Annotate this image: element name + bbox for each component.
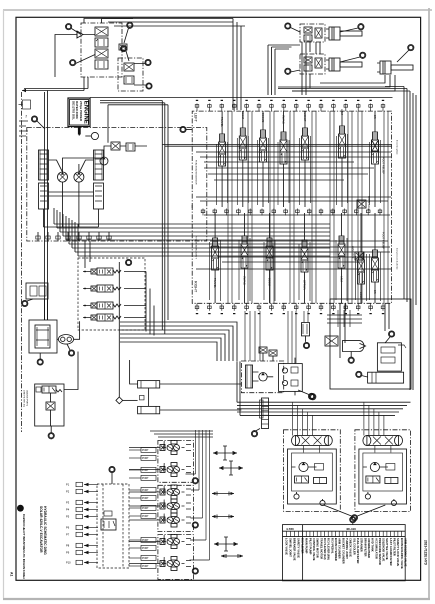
wire bbox=[247, 111, 249, 303]
wire bbox=[126, 51, 129, 61]
node 42 bbox=[145, 59, 151, 65]
wire bbox=[129, 505, 160, 507]
svg-text:270ps POWER: 270ps POWER bbox=[79, 101, 83, 122]
control valve spool TRAVEL upper bbox=[219, 134, 226, 170]
control valve spool BOOM lower bbox=[266, 238, 273, 274]
legend column bbox=[349, 531, 351, 536]
svg-text:2023-7122E HYD: 2023-7122E HYD bbox=[424, 540, 428, 566]
wire bbox=[283, 111, 285, 207]
svg-text:LOCK VALVE: LOCK VALVE bbox=[285, 538, 289, 555]
bucket cylinder C3 bbox=[377, 61, 413, 74]
pilot relief valve box bbox=[35, 384, 64, 426]
wire bbox=[340, 57, 360, 62]
boom cylinder C1 bbox=[326, 27, 362, 40]
svg-text:4D-410: 4D-410 bbox=[346, 527, 356, 531]
wire bbox=[221, 111, 223, 207]
wire bbox=[120, 330, 229, 361]
wire bbox=[242, 111, 244, 207]
bank risers bbox=[196, 430, 210, 560]
small filter F1 bbox=[119, 44, 127, 50]
port stub bbox=[332, 303, 334, 310]
svg-text:P5: P5 bbox=[66, 515, 70, 519]
wire bbox=[315, 111, 317, 303]
port stub bbox=[221, 303, 223, 310]
svg-text:SWING: SWING bbox=[163, 486, 165, 494]
pilot solenoid unit bbox=[160, 485, 185, 499]
svg-text:BREAKER VALVE: BREAKER VALVE bbox=[293, 538, 297, 561]
wire from cluster to top bus bbox=[102, 19, 246, 27]
node 13 bbox=[358, 24, 364, 30]
travel motor rotor bbox=[299, 462, 308, 471]
svg-text:LEFT: LEFT bbox=[194, 113, 198, 123]
pilot solenoid unit bbox=[160, 463, 185, 477]
node 12 bbox=[285, 23, 291, 29]
node 37 bbox=[109, 466, 115, 472]
legend column bbox=[309, 531, 311, 536]
relief sub valve bbox=[46, 402, 55, 410]
wire bbox=[350, 352, 352, 358]
port stub bbox=[246, 104, 248, 112]
wire bbox=[269, 111, 271, 303]
svg-text:RCV LEVER: RCV LEVER bbox=[301, 538, 305, 553]
wire bbox=[83, 317, 146, 319]
port stub bbox=[208, 104, 210, 112]
node 32 bbox=[68, 350, 74, 356]
swing motor circle bbox=[259, 373, 267, 381]
wire bbox=[289, 111, 291, 303]
accumulator line bbox=[118, 262, 120, 397]
port stub bbox=[78, 232, 80, 241]
pilot port arrow bbox=[84, 534, 98, 536]
anti-inversion valve bbox=[302, 323, 310, 336]
wire bbox=[103, 484, 123, 568]
node 40 bbox=[70, 60, 76, 66]
wire bbox=[83, 288, 146, 290]
wire bbox=[120, 342, 217, 361]
svg-text:LINE FILTER 10u: LINE FILTER 10u bbox=[23, 390, 25, 408]
legend column bbox=[338, 531, 340, 536]
control valve spool TRAVEL lower bbox=[212, 238, 219, 274]
port stub bbox=[249, 209, 251, 216]
counterweight link bbox=[304, 446, 320, 453]
node 35 bbox=[350, 517, 356, 523]
solenoid valve SV1 bbox=[91, 268, 121, 275]
pilot port arrow bbox=[84, 516, 98, 518]
boom cushion valve 2 bbox=[300, 54, 325, 74]
port label plate bbox=[141, 447, 156, 452]
svg-text:P2 A4 B4 A5 B5 A6 B6 T: P2 A4 B4 A5 B5 A6 B6 T bbox=[195, 236, 198, 259]
servo links bbox=[49, 160, 94, 196]
svg-text:P4: P4 bbox=[66, 508, 70, 512]
port stub bbox=[246, 303, 248, 310]
crossing bundle bbox=[327, 315, 362, 323]
node 43 bbox=[146, 83, 152, 89]
wire bbox=[304, 111, 306, 207]
svg-text:AIR BREATHER: AIR BREATHER bbox=[367, 538, 371, 558]
port label plate bbox=[141, 555, 156, 560]
port stub bbox=[296, 209, 298, 216]
wire bbox=[54, 223, 330, 225]
legend column bbox=[335, 531, 337, 536]
node 24 bbox=[303, 342, 309, 348]
node 38 bbox=[126, 259, 132, 265]
legend column bbox=[346, 531, 348, 536]
cylinder supply wires bbox=[302, 42, 310, 95]
pilot pump P3 bbox=[100, 157, 108, 165]
svg-text:PORT: PORT bbox=[142, 515, 149, 518]
control valve spool LOCK lower bbox=[358, 252, 365, 288]
svg-text:PORT: PORT bbox=[142, 449, 149, 452]
wire bbox=[311, 111, 313, 303]
port stub bbox=[226, 209, 228, 216]
reducing valve bbox=[42, 386, 56, 393]
pilot solenoid unit bbox=[160, 557, 185, 571]
legend column bbox=[357, 531, 359, 536]
relief valve upper right bbox=[372, 140, 379, 151]
legend column bbox=[286, 531, 288, 536]
svg-text:DRAIN FILTER: DRAIN FILTER bbox=[363, 538, 367, 557]
valve V3 bbox=[95, 49, 108, 58]
left bank boundary bbox=[192, 111, 391, 208]
svg-text:PORT: PORT bbox=[142, 457, 149, 460]
pilot filter valve bbox=[325, 336, 338, 346]
relief valve V2 bbox=[95, 38, 108, 47]
pump drive shafts bbox=[63, 158, 105, 194]
svg-text:SWING: SWING bbox=[163, 557, 165, 565]
node 16 bbox=[285, 68, 291, 74]
small valve pair right of pumps bbox=[111, 142, 120, 150]
test points bbox=[213, 446, 237, 460]
accumulator manifold lower bbox=[138, 406, 160, 413]
speed valve bbox=[366, 476, 380, 483]
counterbalance valve bbox=[296, 436, 329, 446]
legend column bbox=[360, 531, 362, 536]
svg-text:PILOT FILTER: PILOT FILTER bbox=[393, 538, 397, 556]
svg-text:FULL FLOW FILTER: FULL FLOW FILTER bbox=[356, 538, 360, 563]
svg-text:RIGHT: RIGHT bbox=[194, 281, 198, 293]
svg-text:BOOM LOCK: BOOM LOCK bbox=[367, 196, 370, 211]
right bank boundary bbox=[192, 205, 391, 303]
svg-text:ARM CYLINDER: ARM CYLINDER bbox=[338, 538, 342, 559]
wire bbox=[341, 111, 343, 207]
pump case drain bbox=[44, 194, 99, 227]
svg-text:SOLENOID VALVE: SOLENOID VALVE bbox=[382, 538, 386, 562]
wire bbox=[83, 271, 146, 273]
node 46 bbox=[192, 568, 198, 574]
svg-text:RCV LEVER (LH): RCV LEVER (LH) bbox=[323, 538, 327, 560]
valve V4 bbox=[95, 60, 108, 69]
wire bbox=[352, 523, 354, 525]
port stub bbox=[214, 209, 216, 216]
drain check valve bbox=[26, 283, 48, 299]
port stub bbox=[345, 104, 347, 112]
port stub bbox=[88, 232, 90, 241]
port stub bbox=[233, 104, 235, 112]
node 41 bbox=[121, 46, 127, 52]
svg-text:P1: P1 bbox=[66, 483, 70, 487]
control valve spool SWING lower bbox=[241, 236, 248, 272]
control valve spool BOOM upper bbox=[239, 128, 246, 164]
legend column bbox=[298, 531, 300, 536]
port stub bbox=[98, 232, 100, 241]
pilot solenoid unit bbox=[160, 513, 185, 527]
wire bbox=[256, 429, 260, 431]
left dash-dot pilot line bbox=[21, 92, 23, 432]
control valve spool SWING upper bbox=[280, 132, 287, 168]
port stub bbox=[357, 104, 359, 112]
legend column bbox=[379, 531, 381, 536]
port stub bbox=[47, 232, 49, 241]
svg-text:P8: P8 bbox=[66, 544, 70, 548]
node 31 bbox=[37, 359, 43, 365]
wire bbox=[120, 322, 237, 361]
wire bbox=[75, 251, 330, 253]
boom cylinder C2 bbox=[326, 58, 362, 71]
port stub bbox=[283, 303, 285, 310]
wire down left side bbox=[45, 91, 48, 321]
port label plate bbox=[141, 563, 156, 568]
wire bbox=[361, 111, 363, 303]
wire bbox=[341, 213, 343, 303]
main pump P2 bbox=[74, 172, 84, 182]
svg-text:BOOM HOLDING VALVE: BOOM HOLDING VALVE bbox=[400, 538, 404, 569]
svg-text:SWING: SWING bbox=[163, 441, 165, 449]
wire bbox=[231, 111, 233, 303]
svg-text:PORT: PORT bbox=[142, 489, 149, 492]
node 41b bbox=[127, 22, 133, 28]
travel motor left boundary bbox=[284, 430, 341, 512]
counterbalance valve bbox=[367, 436, 399, 446]
legend column bbox=[290, 531, 292, 536]
svg-text:4-780: 4-780 bbox=[286, 527, 294, 531]
wire bbox=[374, 213, 376, 303]
port stub bbox=[320, 303, 322, 310]
svg-text:DAEWOO HEAVY INDUSTRIES LTD. I: DAEWOO HEAVY INDUSTRIES LTD. INCHON KORE… bbox=[22, 514, 26, 579]
top ports bbox=[292, 402, 294, 436]
legend column bbox=[375, 531, 377, 536]
pilot solenoid unit bbox=[160, 499, 185, 513]
svg-text:RCV LEVER (RH): RCV LEVER (RH) bbox=[327, 538, 331, 560]
legend table bbox=[283, 525, 406, 581]
wire bbox=[3, 9, 432, 11]
gauge G1 bbox=[91, 132, 98, 139]
control valve spool DR lower bbox=[372, 250, 379, 286]
svg-text:ACCUMULATOR: ACCUMULATOR bbox=[374, 538, 378, 559]
swing motor boundary bbox=[241, 361, 283, 393]
svg-text:CHECK VALVE: CHECK VALVE bbox=[349, 538, 353, 557]
main feed pair bbox=[162, 145, 391, 147]
wire bbox=[27, 299, 33, 301]
drain ports bbox=[294, 494, 299, 499]
wire bbox=[186, 129, 192, 131]
pilot circuit box bbox=[330, 299, 411, 389]
svg-text:P7: P7 bbox=[66, 533, 70, 537]
shuttle diamond bbox=[116, 397, 123, 404]
boom lock valve bbox=[357, 200, 366, 208]
svg-text:OIL COOLER: OIL COOLER bbox=[352, 538, 356, 555]
node 21 bbox=[348, 357, 354, 363]
wire bbox=[304, 213, 306, 303]
svg-text:DE12TIS DSL: DE12TIS DSL bbox=[72, 101, 76, 120]
wire bbox=[251, 111, 253, 303]
svg-text:SWING: SWING bbox=[163, 535, 165, 543]
port stub bbox=[258, 104, 260, 112]
svg-text:SAFETY LOCK VALVE: SAFETY LOCK VALVE bbox=[396, 538, 400, 566]
wire bbox=[39, 353, 41, 359]
node 39 bbox=[66, 24, 72, 30]
return filter block bbox=[29, 320, 57, 353]
svg-text:LAST GUARD FILTER: LAST GUARD FILTER bbox=[389, 538, 393, 566]
svg-text:FOOT RELIEF: FOOT RELIEF bbox=[382, 157, 386, 174]
port stub bbox=[367, 209, 369, 216]
swing brake box bbox=[279, 364, 303, 392]
wire bbox=[329, 111, 331, 303]
wire bbox=[383, 111, 385, 303]
bank horizontals bbox=[204, 168, 390, 241]
pilot port arrow bbox=[84, 491, 98, 493]
speed valve bbox=[295, 476, 309, 483]
legend column bbox=[364, 531, 366, 536]
svg-text:P3: P3 bbox=[66, 501, 70, 505]
wire bbox=[291, 28, 301, 33]
wire cluster down-left bbox=[22, 77, 88, 91]
pilot group 1 boundary bbox=[158, 441, 194, 483]
accumulator shell bbox=[343, 341, 365, 352]
check box bbox=[140, 395, 145, 400]
wire bbox=[69, 243, 330, 245]
wire bbox=[340, 28, 358, 32]
horn symbol bbox=[77, 31, 83, 38]
svg-text:PORT: PORT bbox=[142, 507, 149, 510]
port label plate bbox=[141, 455, 156, 460]
svg-text:SWING MOTOR: SWING MOTOR bbox=[316, 538, 320, 558]
pilot port arrow bbox=[84, 509, 98, 511]
center joint bbox=[262, 398, 269, 429]
arm lock valve bbox=[355, 252, 364, 260]
wire bbox=[227, 111, 229, 303]
port stub bbox=[37, 232, 39, 241]
control valve spool ARM lower bbox=[338, 236, 345, 272]
port stub bbox=[308, 303, 310, 310]
svg-text:RATED 2000r: RATED 2000r bbox=[75, 101, 79, 120]
svg-text:TRAVEL MOTOR: TRAVEL MOTOR bbox=[319, 538, 323, 559]
svg-text:SOLAR 420LC-V EXCAVATOR: SOLAR 420LC-V EXCAVATOR bbox=[39, 506, 43, 553]
legend column bbox=[342, 531, 344, 536]
port label plate bbox=[141, 537, 156, 542]
accessory valve box bbox=[118, 58, 143, 91]
wire bbox=[129, 519, 160, 521]
swing motor body bbox=[246, 365, 253, 388]
svg-text:PORT: PORT bbox=[142, 557, 149, 560]
wire bbox=[72, 247, 330, 249]
node 17 bbox=[180, 126, 186, 132]
wire bbox=[120, 334, 225, 361]
pilot manifold bbox=[377, 343, 401, 371]
port stub bbox=[344, 209, 346, 216]
svg-text:RCV PEDAL: RCV PEDAL bbox=[330, 538, 334, 554]
wire bbox=[83, 19, 133, 35]
port stub bbox=[345, 303, 347, 310]
solenoid valve SV2 bbox=[91, 285, 121, 292]
port stub bbox=[108, 232, 110, 241]
svg-text:SWING: SWING bbox=[163, 463, 165, 471]
wire bbox=[57, 227, 330, 229]
svg-text:SHUTTLE VALVE: SHUTTLE VALVE bbox=[385, 538, 389, 560]
wire bbox=[45, 299, 48, 320]
wire bbox=[50, 426, 52, 433]
wire bbox=[362, 376, 368, 378]
port stub bbox=[332, 104, 334, 112]
svg-text:SWING: SWING bbox=[163, 514, 165, 522]
port stub bbox=[308, 209, 310, 216]
port designators bbox=[196, 313, 198, 314]
svg-text:CONTROL VALVE: CONTROL VALVE bbox=[312, 538, 316, 561]
wire bbox=[37, 121, 45, 129]
swing pilot valves bbox=[259, 347, 267, 353]
node 26 bbox=[251, 431, 257, 437]
legend column bbox=[316, 531, 318, 536]
wire riser bbox=[85, 241, 154, 336]
port stub bbox=[237, 209, 239, 216]
port stub bbox=[270, 104, 272, 112]
svg-text:SAFETY VALVE: SAFETY VALVE bbox=[297, 538, 301, 558]
rcv valve bbox=[101, 519, 116, 530]
wire bbox=[134, 64, 146, 86]
svg-text:ARM HOLDING VALVE: ARM HOLDING VALVE bbox=[404, 538, 408, 567]
port stub bbox=[285, 209, 287, 216]
legend column bbox=[390, 531, 392, 536]
wire bbox=[333, 111, 335, 303]
wire bbox=[111, 473, 113, 484]
wire bbox=[351, 111, 353, 303]
pilot port arrow bbox=[84, 545, 98, 547]
bank internal bus bbox=[196, 152, 391, 201]
svg-text:BOOM CYLINDER: BOOM CYLINDER bbox=[334, 538, 338, 561]
inner box bbox=[288, 449, 337, 504]
wire bbox=[387, 111, 389, 303]
legend column bbox=[368, 531, 370, 536]
pilot solenoid unit bbox=[160, 441, 185, 455]
legend column bbox=[397, 531, 399, 536]
legend column bbox=[294, 531, 296, 536]
travel motor rotor bbox=[370, 462, 379, 471]
port stub bbox=[283, 104, 285, 112]
engine block E1 bbox=[68, 98, 90, 127]
arrowhead bbox=[22, 89, 26, 92]
svg-text:PORT: PORT bbox=[142, 547, 149, 550]
node 22 bbox=[389, 331, 395, 337]
wire bbox=[130, 360, 242, 410]
solenoid valve group boundary bbox=[78, 258, 145, 330]
control valve spool ARM upper bbox=[339, 126, 346, 162]
wire bbox=[124, 28, 129, 43]
wire bbox=[269, 213, 271, 303]
wire bbox=[262, 111, 264, 207]
drain ports bbox=[365, 494, 370, 499]
node 28 bbox=[31, 116, 37, 122]
port stub bbox=[382, 104, 384, 112]
control valve spool BOOM2 upper bbox=[260, 130, 267, 166]
port stub bbox=[196, 303, 198, 310]
travel motor right boundary bbox=[355, 430, 411, 512]
svg-text:P9: P9 bbox=[66, 551, 70, 555]
port stub bbox=[320, 104, 322, 112]
wire bbox=[76, 55, 95, 64]
pilot port arrow bbox=[84, 527, 98, 529]
port stub bbox=[233, 303, 235, 310]
svg-text:PORT: PORT bbox=[142, 497, 149, 500]
port stub bbox=[261, 209, 263, 216]
